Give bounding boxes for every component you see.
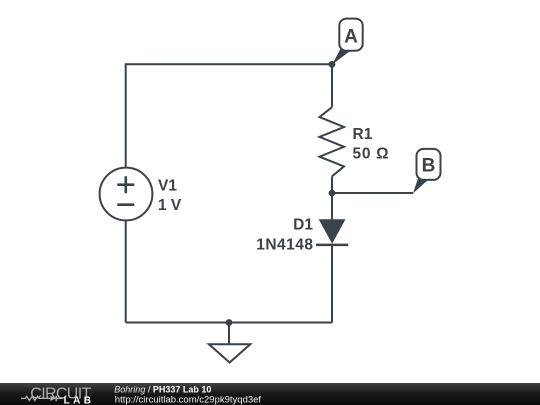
node A tag tail bbox=[332, 49, 350, 65]
junction node A bbox=[329, 61, 336, 68]
voltage source V1 circle bbox=[100, 168, 153, 221]
node B tag box bbox=[417, 149, 441, 180]
junction node B on wire bbox=[329, 190, 336, 197]
svg-text:V1: V1 bbox=[158, 178, 177, 195]
junction ground bbox=[226, 319, 233, 326]
ground stub wire bbox=[228, 323, 230, 345]
node A tag box bbox=[339, 19, 362, 51]
wire resistor to diode bbox=[331, 176, 333, 219]
diode D1 cathode bar bbox=[316, 244, 348, 247]
logo resistor squiggle bbox=[21, 396, 50, 400]
svg-text:LAB: LAB bbox=[64, 395, 95, 405]
wire left vertical lower bbox=[125, 220, 127, 322]
svg-text:Bohring / PH337 Lab 10: Bohring / PH337 Lab 10 bbox=[114, 384, 211, 394]
V1 plus sign bbox=[117, 176, 134, 193]
ground symbol triangle bbox=[209, 344, 250, 362]
wire left vertical upper bbox=[125, 63, 127, 167]
resistor R1 zigzag bbox=[320, 107, 345, 176]
svg-text:A: A bbox=[344, 27, 358, 48]
wire diode to bottom bbox=[331, 245, 333, 323]
svg-text:B: B bbox=[422, 156, 436, 177]
svg-text:1N4148: 1N4148 bbox=[256, 236, 313, 253]
wire top horizontal bbox=[126, 63, 332, 65]
V1 minus sign bbox=[117, 203, 134, 206]
diode D1 triangle bbox=[319, 219, 346, 244]
wire junction to node B tag bbox=[332, 192, 413, 194]
svg-text:D1: D1 bbox=[293, 216, 313, 233]
svg-text:50 Ω: 50 Ω bbox=[353, 146, 390, 163]
svg-text:http://circuitlab.com/c29pk9ty: http://circuitlab.com/c29pk9tyqd3ef bbox=[115, 395, 262, 405]
svg-text:R1: R1 bbox=[353, 126, 373, 143]
logo diode symbol bbox=[50, 396, 55, 401]
wire bottom horizontal bbox=[126, 322, 332, 324]
svg-text:1 V: 1 V bbox=[158, 197, 182, 214]
wire right vertical upper bbox=[331, 64, 333, 107]
node B tag tail bbox=[413, 178, 428, 194]
